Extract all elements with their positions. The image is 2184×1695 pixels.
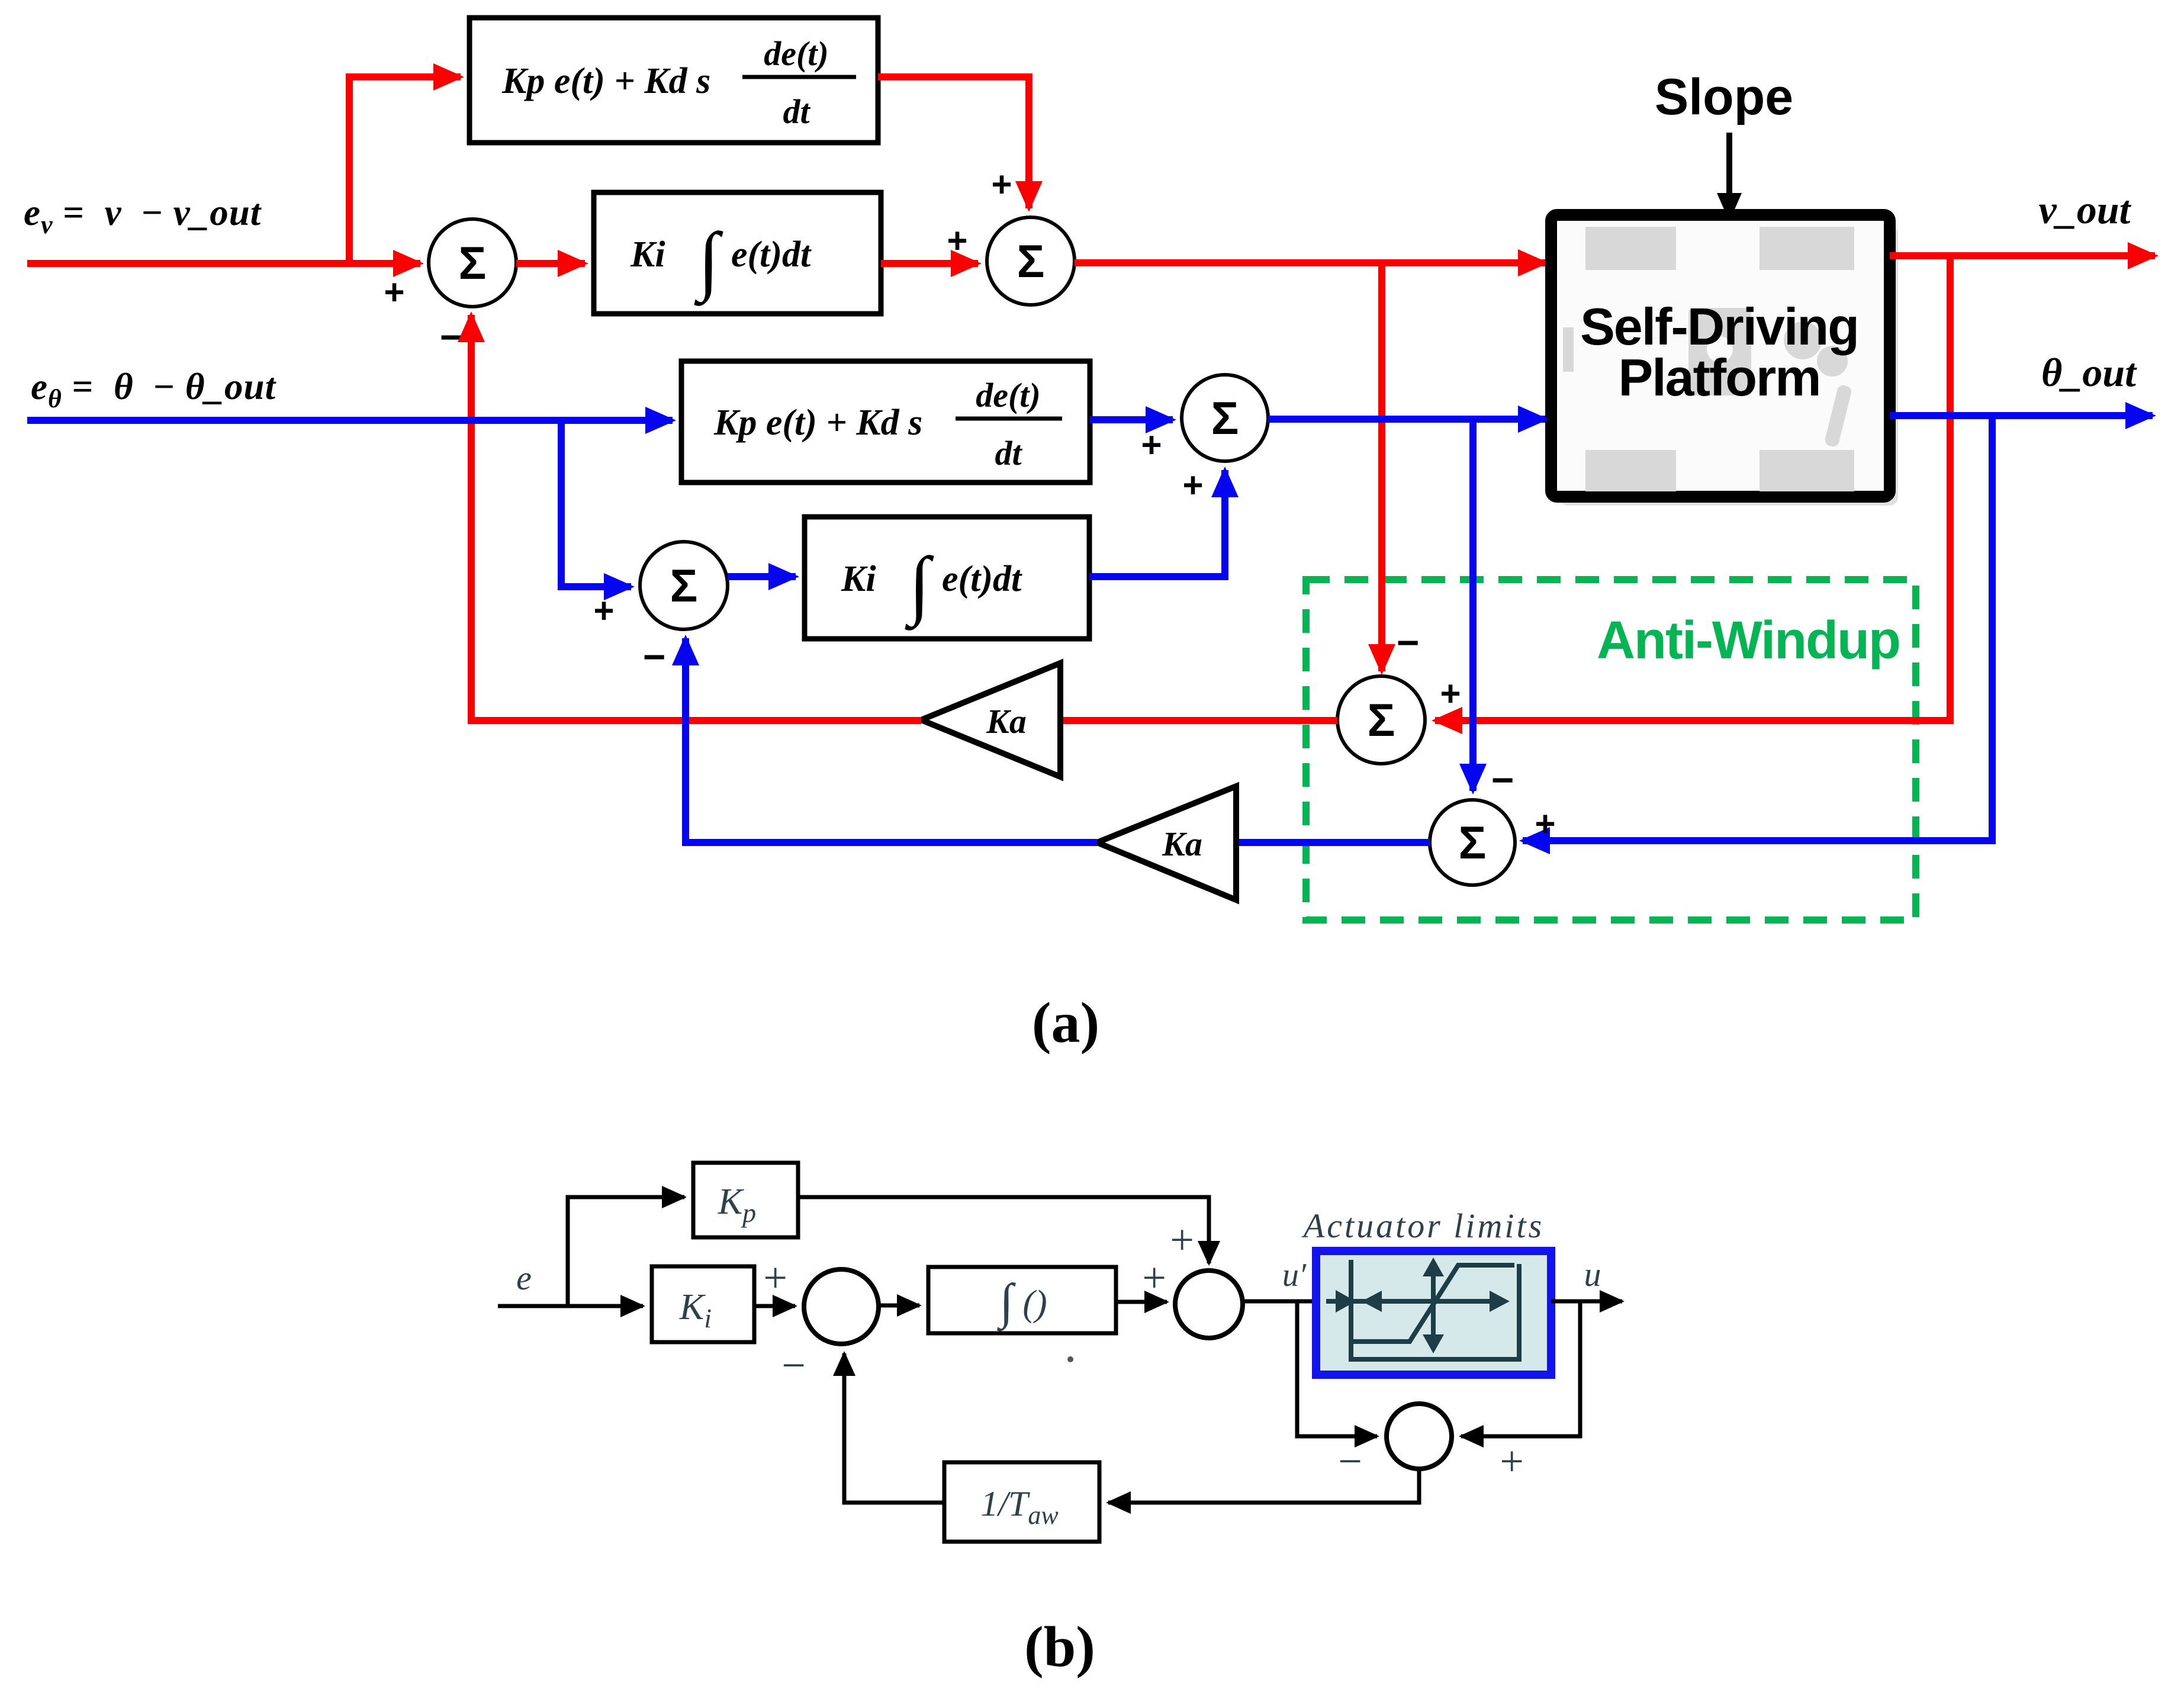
wire B2 to sum S2 [881, 260, 978, 267]
svg-text:Slope: Slope [1655, 69, 1793, 126]
svg-text:e(t)dt: e(t)dt [731, 234, 812, 275]
block B3 Kp e(t)+Kd s de(t)/dt (theta PD) [681, 361, 1090, 483]
svg-text:Kp e(t) + Kd s: Kp e(t) + Kd s [713, 403, 922, 443]
wire 1/Taw to SB1 minus input [844, 1353, 944, 1503]
svg-text:Actuator limits: Actuator limits [1301, 1207, 1544, 1245]
wire Ka blue to S4 minus input [686, 638, 1097, 842]
svg-text:de(t): de(t) [764, 34, 829, 73]
wire branch up to derivative block B1 [349, 77, 461, 263]
svg-text:+: + [761, 1254, 790, 1301]
block 1/Taw [944, 1462, 1099, 1542]
wire u branch down to sum SB3 [1461, 1301, 1580, 1436]
sum S1 (velocity error sum) [429, 219, 516, 307]
block Ki [652, 1266, 754, 1342]
svg-text:eθ = θ − θ_out: eθ = θ − θ_out [31, 366, 277, 413]
svg-text:Σ: Σ [459, 237, 487, 289]
svg-text:Σ: Σ [1211, 392, 1239, 444]
svg-text:−: − [440, 315, 463, 359]
wire S5 to platform [1268, 416, 1545, 423]
sum S2 (velocity PID sum) [987, 217, 1075, 305]
svg-text:Kp e(t) + Kd s: Kp e(t) + Kd s [501, 61, 710, 101]
wire Ki to sum SB1 [754, 1304, 795, 1308]
svg-text:Self-Driving: Self-Driving [1580, 297, 1858, 356]
sum S6 (blue anti-windup sum) [1430, 800, 1515, 885]
wire red branch down to anti-windup sum S3r [1378, 263, 1385, 671]
wire integrator to SB2 [1116, 1300, 1167, 1304]
sum S5 (theta PID sum) [1182, 375, 1268, 461]
wire e input [498, 1304, 643, 1308]
wire S2 to platform [1075, 259, 1545, 266]
node e_v input label [24, 192, 262, 239]
wire Kp to sum SB2 [798, 1197, 1209, 1263]
svg-text:θ_out: θ_out [2041, 350, 2137, 395]
sum S3r (red anti-windup sum) [1337, 676, 1425, 764]
wire S3r to gain Ka red [1060, 717, 1337, 724]
svg-text:+: + [1535, 804, 1555, 844]
svg-text:de(t): de(t) [976, 376, 1041, 414]
wire saturation to u output [1551, 1300, 1622, 1304]
svg-text:+: + [593, 591, 614, 631]
stray dot [1067, 1356, 1073, 1362]
wire theta_out output [1890, 412, 2153, 419]
svg-text:u: u [1584, 1255, 1601, 1294]
wire v_out feedback down and left to S3r [1435, 256, 1950, 721]
svg-text:v_out: v_out [2039, 187, 2132, 232]
wire S6 to gain Ka blue [1236, 839, 1430, 846]
svg-text:Ka: Ka [1162, 825, 1202, 863]
gain Ka (red path) [921, 663, 1060, 777]
gain Ka (blue path) [1097, 786, 1236, 900]
svg-text:ev = v − v_out: ev = v − v_out [24, 192, 262, 239]
svg-text:dt: dt [995, 434, 1022, 472]
wire SB1 to integrator [879, 1304, 919, 1308]
wire v_out output [1890, 252, 2155, 259]
svg-text:+: + [1182, 465, 1203, 505]
green dashed anti-windup box [1306, 580, 1916, 920]
block B1 Kp e(t)+Kd s de(t)/dt (velocity PD) [469, 18, 878, 143]
svg-text:Anti-Windup: Anti-Windup [1597, 611, 1900, 670]
svg-text:dt: dt [783, 92, 810, 131]
svg-text:+: + [991, 165, 1012, 204]
wire B3 to sum S5 [1090, 416, 1173, 423]
wire blue branch down to anti-windup sum S6 [1469, 419, 1477, 791]
sum SB2 [1175, 1271, 1243, 1338]
svg-text:+: + [1140, 1254, 1169, 1301]
wire branch up to Kp [568, 1197, 684, 1306]
wire S1 to block B2 [516, 260, 585, 267]
svg-text:+: + [1141, 425, 1162, 465]
svg-text:e(t)dt: e(t)dt [942, 559, 1022, 599]
svg-text:(a): (a) [1032, 991, 1099, 1055]
svg-text:(b): (b) [1024, 1615, 1095, 1679]
svg-text:u′: u′ [1282, 1257, 1307, 1294]
wire e_v input to sum S1 [27, 260, 420, 267]
svg-text:−: − [1397, 620, 1420, 664]
wire slope arrow into platform [1726, 133, 1732, 195]
svg-text:+: + [947, 221, 967, 260]
svg-text:e: e [516, 1259, 532, 1297]
wire S4 to block B4 [728, 573, 796, 580]
svg-text:(): () [1022, 1284, 1047, 1324]
wire u' branch down to sum SB3 [1297, 1301, 1377, 1436]
svg-text:+: + [384, 272, 404, 312]
svg-text:Ki: Ki [841, 559, 876, 599]
wire B1 output down to S2 [878, 77, 1029, 208]
svg-text:−: − [1491, 758, 1514, 802]
wire theta_out feedback down and left to S6 [1523, 416, 1992, 841]
sum SB3 [1387, 1404, 1452, 1469]
wire e_theta input to block B3 [27, 417, 673, 424]
wire branch down to sum S4 [561, 420, 631, 587]
svg-text:−: − [643, 635, 666, 678]
svg-text:Σ: Σ [1017, 235, 1045, 287]
svg-text:−: − [1336, 1437, 1365, 1485]
block saturation (actuator limits) [1316, 1251, 1551, 1375]
block platform Self-Driving Platform [1551, 215, 1898, 506]
svg-text:Platform: Platform [1619, 348, 1820, 407]
wire SB3 down to 1/Taw [1108, 1469, 1419, 1503]
svg-text:Σ: Σ [1368, 694, 1395, 746]
svg-text:+: + [1497, 1437, 1526, 1485]
block B2 Ki integral (velocity I) [594, 192, 881, 314]
block B4 Ki integral (theta I) [805, 517, 1089, 639]
svg-text:Ki: Ki [630, 234, 665, 275]
svg-text:Ka: Ka [986, 702, 1027, 741]
svg-text:+: + [1440, 674, 1461, 713]
svg-text:Σ: Σ [1459, 816, 1487, 869]
block Kp [693, 1163, 798, 1237]
wire B4 up to sum S5 [1089, 470, 1225, 577]
wire SB2 to saturation [1243, 1300, 1316, 1304]
svg-text:Σ: Σ [670, 559, 698, 612]
node e_theta input label [31, 366, 277, 413]
svg-text:+: + [1167, 1216, 1196, 1263]
sum SB1 [804, 1269, 879, 1344]
sum S4 (theta error sum) [640, 542, 728, 629]
svg-text:−: − [779, 1342, 808, 1389]
wire Ka red to S1 minus input [471, 315, 921, 721]
block integrator [928, 1267, 1116, 1333]
